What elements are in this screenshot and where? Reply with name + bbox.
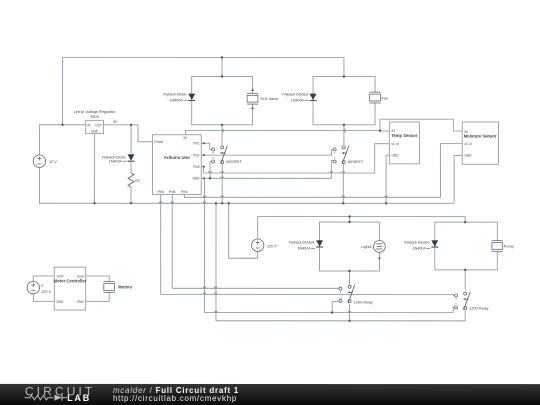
- svg-text:120V Relay: 120V Relay: [354, 301, 373, 305]
- svg-text:GND: GND: [56, 300, 64, 304]
- svg-text:GND: GND: [464, 154, 472, 158]
- svg-text:Moisture Sensor: Moisture Sensor: [464, 134, 497, 139]
- svg-text:Motors: Motors: [118, 285, 133, 290]
- svg-text:IN: IN: [87, 123, 91, 127]
- svg-text:Pin6: Pin6: [158, 190, 165, 194]
- svg-text:Power: Power: [154, 140, 164, 144]
- svg-text:SOL Valve: SOL Valve: [260, 97, 278, 101]
- svg-text:7805: 7805: [90, 115, 98, 119]
- svg-text:Pin3: Pin3: [193, 165, 200, 169]
- svg-text:Arduino Uno: Arduino Uno: [164, 155, 190, 160]
- svg-text:120 V: 120 V: [267, 245, 277, 249]
- svg-text:uC In: uC In: [464, 142, 472, 146]
- svg-text:120V: 120V: [56, 274, 64, 278]
- svg-text:Lights: Lights: [361, 245, 371, 249]
- svg-text:5V: 5V: [183, 136, 188, 140]
- svg-text:1N4004: 1N4004: [170, 99, 183, 103]
- svg-text:Linear Voltage Regulator: Linear Voltage Regulator: [74, 110, 117, 114]
- svg-text:120V Relay: 120V Relay: [469, 306, 488, 310]
- svg-text:2: 2: [41, 284, 43, 288]
- svg-text:1N4004: 1N4004: [413, 247, 426, 251]
- svg-text:Pin2: Pin2: [193, 153, 200, 157]
- svg-text:MOSFET: MOSFET: [348, 160, 364, 164]
- svg-text:LAB: LAB: [67, 393, 91, 403]
- svg-text:Flyback Diode3: Flyback Diode3: [282, 93, 307, 97]
- svg-text:Flyback Diode4: Flyback Diode4: [289, 241, 314, 245]
- svg-text:5V: 5V: [113, 120, 118, 124]
- svg-text:uC In: uC In: [392, 142, 400, 146]
- svg-text:Pin5: Pin5: [169, 190, 176, 194]
- svg-text:GND: GND: [77, 300, 85, 304]
- svg-text:OUT: OUT: [95, 123, 102, 127]
- svg-text:120 V: 120 V: [41, 290, 51, 294]
- svg-text:GND: GND: [193, 176, 201, 180]
- svg-text:Fan: Fan: [382, 96, 389, 100]
- svg-text:1N4004: 1N4004: [297, 247, 310, 251]
- svg-text:Pin1: Pin1: [193, 141, 200, 145]
- svg-text:R1: R1: [135, 179, 140, 183]
- svg-text:12 V: 12 V: [49, 160, 57, 164]
- svg-text:GND: GND: [91, 130, 99, 134]
- svg-text:Motor Controller: Motor Controller: [54, 279, 87, 284]
- svg-text:MOSFET: MOSFET: [226, 160, 242, 164]
- svg-text:Temp Sensor: Temp Sensor: [391, 133, 418, 138]
- svg-text:1N4004: 1N4004: [291, 99, 304, 103]
- svg-text:Flyback Diode5: Flyback Diode5: [404, 241, 429, 245]
- svg-text:Aout: Aout: [77, 274, 84, 278]
- svg-text:GND: GND: [392, 153, 400, 157]
- svg-text:Pump: Pump: [504, 244, 514, 248]
- svg-text:Pin4: Pin4: [181, 190, 188, 194]
- svg-text:1N4004: 1N4004: [109, 160, 122, 164]
- svg-text:Flyback Diode: Flyback Diode: [163, 93, 186, 97]
